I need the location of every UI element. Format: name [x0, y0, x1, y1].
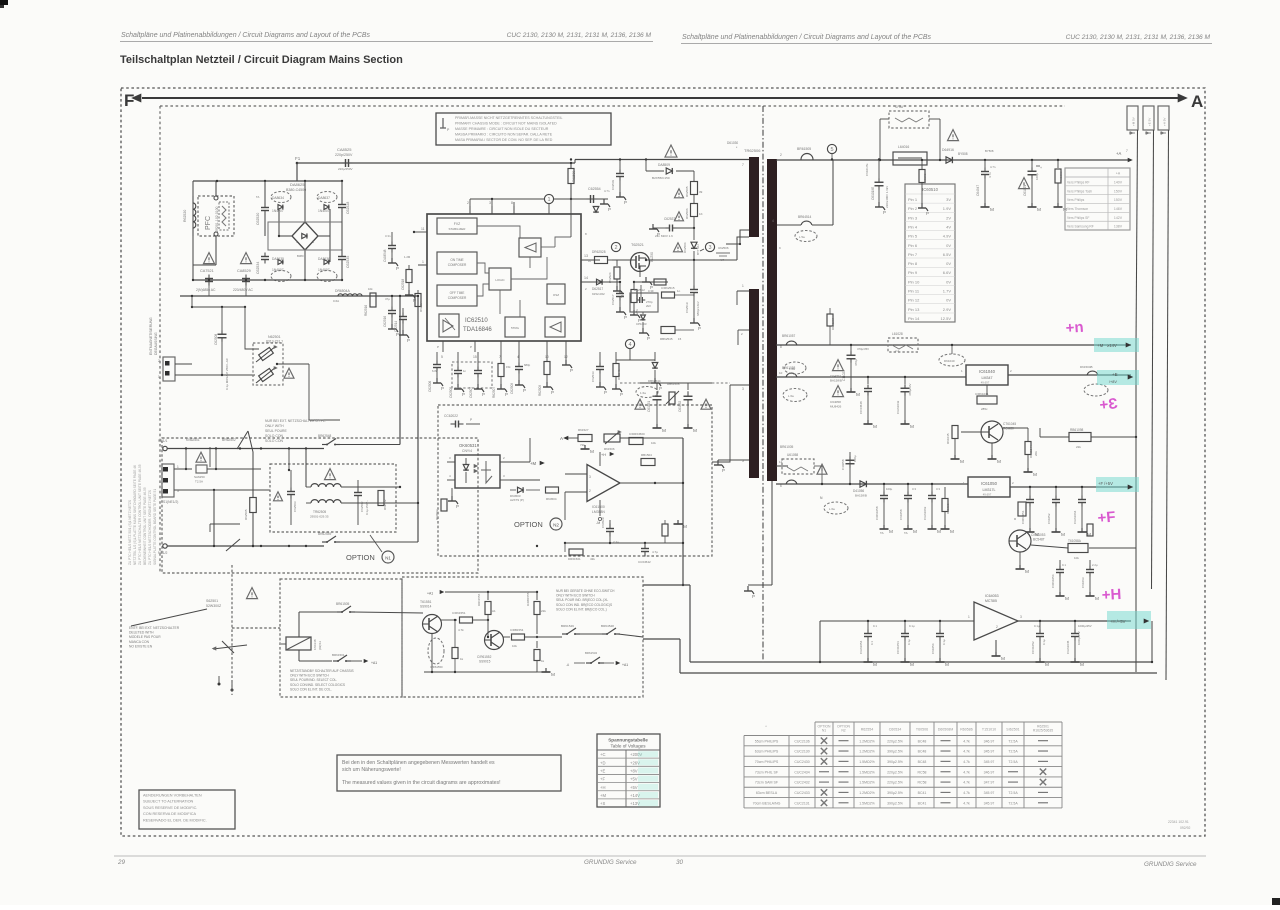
posistor N62501 label — [266, 335, 283, 344]
wire rb61098 — [1040, 428, 1137, 438]
wire rail 280 — [192, 279, 342, 281]
svg-text:11: 11 — [779, 460, 782, 464]
svg-text:R64504: R64504 — [546, 497, 557, 501]
svg-text:Bei den in den Schaltplänen an: Bei den in den Schaltplänen angegebenen … — [342, 760, 495, 766]
switch BR61529 — [561, 624, 580, 635]
IC62510 comparator 2 — [545, 317, 565, 337]
svg-text:P: P — [482, 392, 485, 397]
svg-text:CC64548: CC64548 — [859, 401, 863, 414]
warning triangle C62503 — [274, 492, 283, 501]
cap C61019 — [871, 160, 889, 216]
svg-text:1N4007: 1N4007 — [272, 209, 284, 213]
svg-text:20k: 20k — [1034, 451, 1038, 456]
wire +H input — [819, 621, 974, 663]
svg-text:C62554: C62554 — [588, 187, 601, 191]
svg-text:CUC2131: CUC2131 — [794, 801, 809, 805]
svg-text:MASA PRIMARIA / SECTOR DE COM.: MASA PRIMARIA / SECTOR DE COM. NO SEP. D… — [455, 138, 553, 142]
degauss leader line — [131, 609, 207, 626]
footer page 29 — [117, 859, 126, 866]
svg-text:C/R61053: C/R61053 — [1031, 533, 1046, 537]
svg-text:CA8525: CA8525 — [337, 147, 352, 152]
diode D64916 — [942, 148, 968, 163]
svg-text:CUC 2130, 2130 M, 2131, 2131 M: CUC 2130, 2130 M, 2131, 2131 M, 2136, 21… — [507, 32, 652, 39]
capacitor C62528 right — [338, 181, 350, 236]
svg-text:D62517: D62517 — [592, 287, 603, 291]
svg-text:470µ: 470µ — [854, 359, 858, 366]
svg-text:P: P — [659, 386, 662, 391]
warning triangle D62504 — [674, 243, 683, 252]
filter label — [310, 510, 329, 519]
svg-text:PRIMARY CHASSIS MODE : CIRCUIT: PRIMARY CHASSIS MODE : CIRCUIT NOT MAINS… — [455, 122, 557, 126]
res RB61098 — [1069, 428, 1091, 449]
svg-text:29201-102.0100: 29201-102.0100 — [215, 206, 219, 232]
svg-text:C64947: C64947 — [976, 185, 980, 196]
svg-text:Vers Philips RF: Vers Philips RF — [1067, 180, 1090, 184]
svg-text:TA: TA — [904, 531, 908, 535]
zener D62510 — [593, 199, 599, 212]
svg-text:M: M — [873, 424, 877, 430]
svg-text:P: P — [570, 368, 573, 373]
footer grundig left — [584, 859, 637, 866]
value labels sprinkle 4 — [588, 189, 654, 293]
capacitor CC62022 — [444, 414, 480, 428]
svg-text:C60534: C60534 — [889, 728, 902, 732]
svg-text:2V: 2V — [946, 215, 951, 220]
svg-text:BY508: BY508 — [985, 149, 994, 153]
svg-text:MASSA PRIMARIO : CIRCUITO NON: MASSA PRIMARIO : CIRCUITO NON SEPAR. DAL… — [455, 133, 553, 137]
svg-text:345.97: 345.97 — [984, 760, 995, 764]
resistor C62518 — [401, 265, 427, 290]
svg-text:30: 30 — [676, 859, 684, 866]
svg-text:4.7k: 4.7k — [963, 750, 970, 754]
svg-text:M: M — [1065, 596, 1069, 602]
+F highlight — [1096, 477, 1139, 492]
posistor body 1 — [256, 346, 277, 362]
wire +H out — [1018, 620, 1131, 622]
svg-text:390µ2.5%: 390µ2.5% — [887, 791, 903, 795]
svg-text:RCM80: RCM80 — [1003, 427, 1014, 431]
svg-text:LOGIC: LOGIC — [495, 278, 505, 282]
wire +E rail from transformer — [776, 376, 966, 378]
svg-text:390µ2.5%: 390µ2.5% — [887, 760, 903, 764]
fuse bump D61504B — [1080, 365, 1108, 396]
wire opto to opamp — [510, 480, 540, 483]
svg-text:RC58: RC58 — [918, 781, 927, 785]
wire PFC left drop — [192, 181, 194, 280]
rotated note line 1 — [133, 465, 137, 565]
svg-text:M: M — [1087, 532, 1091, 538]
svg-text:Vers Samsung RF: Vers Samsung RF — [1067, 225, 1094, 229]
svg-text:142V: 142V — [1114, 216, 1123, 220]
svg-text:7: 7 — [1126, 149, 1128, 153]
scan speck bottom right — [1272, 898, 1280, 905]
svg-text:1.2MΩ2%: 1.2MΩ2% — [859, 750, 874, 754]
label A — [1191, 92, 1203, 111]
cap C64042 — [896, 376, 914, 430]
svg-text:+M: +M — [530, 461, 536, 466]
resistor R61550b — [452, 619, 464, 672]
resistor DR62528 — [592, 250, 612, 264]
svg-text:R60505: R60505 — [923, 173, 927, 184]
svg-text:2.9V: 2.9V — [943, 307, 952, 312]
fuse wires U61058 — [776, 466, 823, 485]
degauss dashed box2 — [402, 577, 643, 697]
svg-text:1.5MΩ2%: 1.5MΩ2% — [859, 760, 874, 764]
svg-text:C61052: C61052 — [1047, 513, 1051, 524]
svg-text:MASSE PRIMAIRE : CIRCUIT NON I: MASSE PRIMAIRE : CIRCUIT NON ISOLE DU SE… — [455, 127, 549, 131]
transformer primary tap — [726, 230, 749, 245]
wire +F rail — [776, 483, 968, 485]
svg-text:P: P — [621, 294, 624, 299]
svg-text:+C: +C — [600, 752, 605, 757]
svg-text:(02)S1: (02)S1 — [318, 641, 322, 650]
svg-text:CUC2136: CUC2136 — [794, 739, 809, 743]
svg-text:0.39: 0.39 — [648, 289, 654, 293]
capacitor C62520 — [256, 181, 269, 236]
svg-text:MU8426: MU8426 — [830, 405, 842, 409]
svg-text:R61045: R61045 — [946, 433, 950, 444]
svg-text:4: 4 — [628, 342, 631, 348]
svg-text:1K: 1K — [699, 212, 703, 216]
wire bridge AC risers — [399, 295, 419, 542]
svg-text:BR61057: BR61057 — [782, 334, 796, 338]
svg-text:M: M — [856, 392, 860, 398]
svg-text:COMPOSER: COMPOSER — [448, 263, 467, 267]
svg-text:+H: +H — [600, 785, 605, 790]
svg-text:R62518: R62518 — [635, 292, 639, 303]
svg-text:LM347: LM347 — [982, 376, 993, 380]
wire base T61552 — [485, 636, 488, 638]
page scan corner mark — [0, 0, 8, 8]
svg-text:4.7k: 4.7k — [963, 801, 970, 805]
svg-text:3: 3 — [589, 475, 591, 479]
transistor CB61053 — [1009, 530, 1046, 552]
svg-text:D61030: D61030 — [727, 141, 738, 145]
relay diode D61545 — [313, 639, 322, 650]
resistor R61527 — [578, 428, 592, 447]
svg-text:2: 2 — [467, 201, 469, 205]
fuse bump BR61058 — [782, 366, 797, 377]
OPTION N2 dashed box — [438, 405, 712, 556]
svg-text:SEUL POURE: SEUL POURE — [265, 429, 287, 433]
svg-text:M: M — [1080, 662, 1084, 668]
measured values note de2 — [342, 767, 401, 773]
wire bridge left — [278, 209, 292, 237]
svg-text:S1(NE1/2): S1(NE1/2) — [163, 500, 178, 504]
right page header text — [682, 34, 932, 41]
mains connector — [162, 464, 179, 504]
mosfet drain wire — [648, 237, 749, 261]
svg-text:RESERVADO EL DER. DE MODIFIC.: RESERVADO EL DER. DE MODIFIC. — [143, 818, 207, 822]
pin stub labels IC — [437, 232, 587, 349]
opto ground — [448, 488, 459, 509]
svg-text:1.9V: 1.9V — [943, 206, 952, 211]
diode D62513 — [636, 312, 650, 341]
svg-text:D61040: D61040 — [944, 359, 955, 363]
svg-text:R61008: R61008 — [1059, 171, 1063, 182]
svg-text:A2X79 (P): A2X79 (P) — [510, 498, 524, 502]
svg-text:5: 5 — [830, 147, 833, 153]
posistor N62501 box — [253, 343, 283, 385]
svg-text:IC60510: IC60510 — [922, 187, 939, 192]
switch slash bottom — [226, 539, 240, 551]
svg-text:A: A — [560, 436, 563, 441]
filter winding top — [306, 449, 400, 488]
svg-text:C/R61054: C/R61054 — [1051, 574, 1055, 588]
cap C44058 — [841, 452, 857, 485]
svg-text:CC62022: CC62022 — [444, 414, 458, 418]
IC62510 block LOGIC — [489, 268, 511, 290]
svg-text:0.1µ: 0.1µ — [942, 639, 946, 645]
doc number — [1168, 820, 1190, 830]
svg-text:PFC: PFC — [205, 216, 212, 230]
wire bridge right — [318, 209, 330, 262]
svg-text:P: P — [470, 345, 472, 349]
svg-text:2kV: 2kV — [646, 304, 651, 308]
outer dashed border — [121, 88, 1205, 836]
svg-text:0V: 0V — [946, 261, 951, 266]
svg-text:BR62548: BR62548 — [318, 434, 332, 438]
svg-text:C62516: C62516 — [383, 316, 387, 327]
svg-text:N62501: N62501 — [268, 335, 281, 339]
IC62510 block OSZ — [547, 284, 565, 304]
svg-text:49.697: 49.697 — [983, 493, 992, 497]
relay RL61545 — [286, 637, 311, 650]
svg-text:CC61052: CC61052 — [1031, 641, 1035, 654]
connector drop wire 3 — [1166, 130, 1169, 680]
capacitor C62509 — [510, 352, 526, 394]
svg-text:13: 13 — [584, 254, 588, 258]
svg-text:M: M — [950, 529, 954, 535]
svg-text:T2.5A: T2.5A — [1008, 750, 1018, 754]
svg-text:SOLO CON/IND. SELECT COLOGICS: SOLO CON/IND. SELECT COLOGICS — [290, 683, 345, 687]
svg-text:DA8637: DA8637 — [318, 196, 330, 200]
OPTION N1 dashed box — [162, 438, 478, 573]
dashed oval D61040 — [939, 344, 965, 366]
svg-text:R60586: R60586 — [960, 728, 973, 732]
svg-text:B380: B380 — [297, 254, 304, 258]
svg-text:C62519: C62519 — [685, 302, 689, 313]
svg-text:+M: +M — [600, 793, 606, 798]
svg-text:R61052: R61052 — [946, 503, 950, 514]
opto pin stubs — [447, 456, 510, 480]
svg-text:D60508M: D60508M — [938, 728, 954, 732]
capacitor CC64542 — [638, 543, 658, 564]
terminal NE1/1 — [158, 439, 168, 451]
svg-text:U62506: U62506 — [718, 246, 729, 250]
warning triangle R62505 — [675, 189, 684, 198]
ground P C62548 — [388, 258, 399, 271]
svg-text:C62508: C62508 — [214, 334, 218, 345]
wire posistor out — [276, 363, 340, 420]
svg-text:C61551: C61551 — [647, 401, 651, 412]
inner dashed border left — [159, 106, 161, 573]
svg-text:6.8n: 6.8n — [432, 369, 438, 373]
warning note line4 — [455, 133, 553, 137]
svg-text:NETZTEIL 1/2 (S)1-PLATTE MAIN: NETZTEIL 1/2 (S)1-PLATTE MAINS SWITCHBOA… — [133, 465, 137, 565]
svg-text:NO EXISTE EN: NO EXISTE EN — [129, 644, 153, 648]
svg-text:T62521: T62521 — [631, 243, 644, 247]
warning tri E1 — [830, 360, 844, 383]
filter cap C62502 — [354, 480, 369, 525]
svg-text:M: M — [1095, 596, 1099, 602]
svg-text:4.9V: 4.9V — [943, 234, 952, 239]
resistor C61555 — [534, 641, 545, 672]
IC62510 block 5TRG — [505, 317, 525, 337]
svg-text:ON TIME: ON TIME — [450, 258, 463, 262]
capacitor C62548 — [383, 231, 415, 262]
svg-text:M: M — [590, 449, 594, 455]
svg-text:R62505: R62505 — [685, 186, 689, 197]
svg-text:P: P — [604, 390, 607, 395]
filter cap C62503 — [287, 470, 297, 525]
svg-text:P: P — [437, 345, 439, 349]
posistor body 2 — [256, 367, 277, 383]
caps +F input bank — [875, 483, 941, 535]
svg-text:C62518: C62518 — [401, 279, 405, 290]
PFC pin bottom — [193, 232, 218, 265]
value labels sprinkle 2 — [368, 234, 411, 301]
footer page 30 — [676, 859, 684, 866]
resistor R62509 — [538, 352, 554, 396]
svg-text:12.5V: 12.5V — [941, 316, 952, 321]
svg-text:3: 3 — [1020, 615, 1022, 619]
resistor R62507 — [492, 352, 508, 398]
arrowhead A right — [1178, 94, 1187, 102]
svg-text:C/R62515: C/R62515 — [661, 286, 675, 290]
fuse bump BR61055 — [780, 445, 797, 484]
winding parallel tap — [772, 160, 833, 226]
warning triangle CA7521 — [204, 253, 215, 264]
resistor D61555 — [526, 591, 546, 638]
IC62510 pin stubs bottom — [441, 341, 568, 359]
svg-text:+8V: +8V — [630, 769, 638, 774]
svg-text:C/R61041: C/R61041 — [975, 392, 989, 396]
PFC coil R62520 — [193, 196, 196, 236]
caps low F bank — [1051, 560, 1099, 602]
node 3 circle — [700, 242, 730, 262]
wire rail 296 — [180, 285, 418, 296]
wire ct61045 — [961, 428, 1028, 465]
svg-text:347.97: 347.97 — [984, 781, 995, 785]
IC62510 pin stub 11 — [415, 227, 427, 232]
svg-text:1n: 1n — [677, 289, 681, 293]
svg-text:C64057: C64057 — [830, 374, 841, 378]
svg-text:15k: 15k — [506, 365, 511, 369]
svg-text:1: 1 — [547, 197, 550, 203]
svg-text:+F: +F — [1097, 508, 1116, 526]
svg-text:72k: 72k — [580, 443, 585, 447]
mosfet T62521 — [612, 253, 650, 272]
svg-text:R62516: R62516 — [364, 305, 368, 316]
relay coil wires — [281, 612, 337, 661]
svg-text:150V: 150V — [1114, 189, 1123, 193]
svg-text:OPTION: OPTION — [346, 553, 375, 562]
svg-text:22n 630V 1.6: 22n 630V 1.6 — [655, 234, 673, 238]
+H output — [1110, 619, 1149, 624]
svg-text:N1: N1 — [385, 556, 391, 561]
label KN62501 — [186, 438, 200, 442]
svg-text:C44058: C44058 — [841, 459, 845, 470]
warning triangle filter — [325, 469, 336, 480]
wire A net vertical — [682, 438, 684, 586]
svg-text:14: 14 — [584, 276, 588, 280]
rotated note line 5 — [153, 489, 157, 565]
sheet continuation arrow line F-A — [142, 97, 1179, 99]
capacitor C62537 — [649, 217, 695, 238]
svg-text:0.1µ: 0.1µ — [1042, 639, 1046, 645]
junction snubber — [645, 158, 647, 171]
svg-text:D62504: D62504 — [683, 242, 687, 253]
svg-text:220p/250V: 220p/250V — [335, 153, 353, 157]
svg-text:+H: +H — [601, 453, 606, 457]
svg-text:100µ: 100µ — [886, 487, 893, 491]
svg-text:3.3: 3.3 — [936, 487, 940, 491]
wire feedback run from box2 — [643, 585, 690, 662]
wire node4 link — [616, 349, 655, 360]
svg-text:N2: N2 — [553, 523, 559, 528]
fuse SI60516 wires — [879, 119, 941, 161]
svg-text:10k: 10k — [512, 644, 517, 648]
svg-text:M: M — [1033, 472, 1037, 478]
svg-text:P: P — [624, 315, 627, 320]
svg-text:CUC 2130, 2130 M, 2131, 2131 M: CUC 2130, 2130 M, 2131, 2131 M, 2136, 21… — [1066, 34, 1211, 41]
svg-text:0.1: 0.1 — [1062, 563, 1066, 567]
svg-text:11: 11 — [421, 227, 425, 231]
diode D62517 — [592, 279, 605, 296]
left page header model list — [507, 32, 652, 39]
node dashed oval F — [820, 496, 848, 514]
svg-text:T60506: T60506 — [916, 728, 928, 732]
capacitor C62514 — [394, 308, 410, 343]
svg-text:+5V: +5V — [630, 777, 638, 782]
svg-text:9152-062: 9152-062 — [592, 292, 605, 296]
svg-text:C61019E: C61019E — [871, 187, 875, 200]
feedback cap C64529 — [601, 517, 619, 544]
svg-text:Pin 5: Pin 5 — [908, 234, 918, 239]
diode DA8509 — [646, 163, 694, 180]
svg-text:TA: TA — [880, 531, 884, 535]
svg-text:M: M — [1061, 532, 1065, 538]
opamp out wire — [620, 482, 683, 484]
wire fb bottom — [564, 542, 683, 544]
svg-text:146V: 146V — [1114, 207, 1123, 211]
svg-text:1: 1 — [177, 465, 179, 469]
ground P pin12 — [562, 352, 573, 373]
svg-text:P: P — [396, 266, 399, 271]
svg-text:C61054: C61054 — [931, 643, 935, 654]
warning triangle degauss — [247, 588, 258, 599]
IC62510 block drv — [439, 314, 459, 337]
svg-text:ZU PTC HE1/2 NETZ 50/1 (S)1: ZU PTC HE1/2 NETZ 50/1 (S)1 NETZ NETZS — [128, 500, 132, 565]
svg-text:The measured values given in t: The measured values given in the circuit… — [342, 780, 501, 786]
svg-text:DA8634: DA8634 — [272, 196, 284, 200]
resistor R62506 — [685, 195, 703, 219]
svg-text:39: 39 — [699, 190, 703, 194]
svg-text:Pin 1: Pin 1 — [908, 197, 918, 202]
resistor R62518 — [630, 281, 641, 323]
svg-text:220p/250V: 220p/250V — [338, 167, 353, 171]
wire IC feed top — [414, 181, 427, 232]
capacitor C62508 — [214, 307, 229, 390]
svg-text:49.697: 49.697 — [981, 381, 990, 385]
IC62510 comparator 1 — [519, 238, 541, 257]
diode DB62544 — [648, 352, 662, 391]
svg-text:M: M — [910, 662, 914, 668]
capacitor C62534 — [256, 253, 269, 275]
aux warning tri 2 — [701, 399, 711, 409]
svg-text:6.6V: 6.6V — [943, 270, 952, 275]
